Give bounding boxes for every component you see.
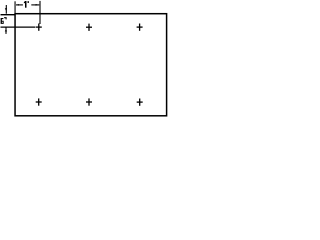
label 1' (digit one drawn as path + foot prime tick) [24,1,28,8]
dimension arrow 6in top (outside, pointing down) [5,5,7,14]
fixture mark + (row2 col1) [36,98,42,105]
fixture mark + (row1 col3) [137,24,143,31]
dimension line 1' left segment [16,4,23,6]
label 6" (digit six drawn as blocky path + inch hook) [1,18,7,24]
extension line top (for 6in dim, from top wall leftward) [1,14,16,16]
dimension line 1' right segment [31,4,39,6]
extension line right (for 1' dim, down to first fixture) [39,1,41,24]
fixture mark + (row1 col2) [86,24,92,31]
arrowhead 1' left [16,4,19,6]
dimension arrow 6in bottom (outside, pointing up) [5,27,7,34]
arrowhead 1' right [36,4,40,6]
fixture mark + (row2 col2) [86,98,92,105]
extension line left (for 1' dim, above left wall) [14,1,16,13]
extension line bottom (for 6in dim, to first fixture) [1,26,36,28]
fixture mark + (row1 col1) [36,24,42,31]
room outline rectangle [15,14,167,116]
fixture mark + (row2 col3) [137,99,143,106]
